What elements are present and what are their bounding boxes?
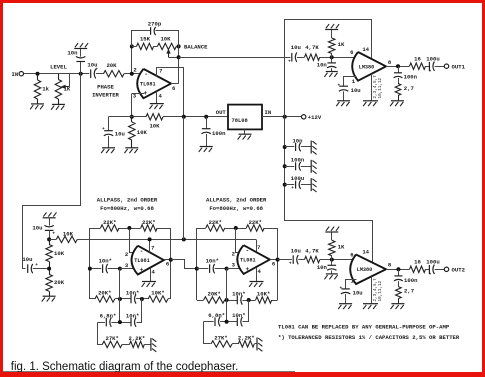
wire 15K to pot — [154, 46, 158, 48]
terminal OUT2 — [444, 267, 465, 274]
resistor 15K feedback — [137, 36, 154, 50]
wire 78L08 to +12V — [262, 116, 302, 118]
wire U1 output — [171, 83, 179, 85]
capacitor 100u amp1 out — [426, 55, 445, 74]
ground under 10n amp2 — [324, 274, 337, 279]
ground under 10n amp1 — [324, 72, 337, 77]
amplifier LM380 #1 — [350, 46, 392, 85]
note tolerances — [278, 334, 460, 341]
capacitor 100u amp2 out — [426, 259, 445, 278]
svg-text:+: + — [340, 286, 343, 291]
svg-text:1K: 1K — [338, 41, 345, 48]
resistor 20K* allpass1 — [95, 290, 115, 303]
svg-text:22K*: 22K* — [249, 219, 262, 226]
node feedback right — [177, 44, 181, 48]
node +12V rail — [283, 115, 287, 119]
node amp1 input — [330, 55, 334, 59]
svg-text:+: + — [52, 231, 55, 236]
wire allpass1 right vertical — [170, 228, 172, 299]
svg-text:10u: 10u — [351, 87, 361, 94]
svg-text:OUT2: OUT2 — [452, 267, 466, 274]
wire 22K mid allpass2 — [225, 228, 247, 230]
potentiometer LEVEL 1K — [50, 63, 71, 104]
svg-text:IN: IN — [265, 109, 272, 116]
svg-text:10n*: 10n* — [126, 312, 139, 319]
label allpass2 title — [206, 196, 267, 203]
svg-text:10K: 10K — [160, 36, 171, 43]
ground U1 pin4 — [149, 104, 163, 109]
wire U2 pin4 stub — [150, 268, 152, 281]
resistor 20K — [104, 62, 125, 77]
resistor 1K amp2 — [329, 232, 345, 259]
wire 22K row right — [157, 228, 171, 230]
capacitor 10n amp2 — [317, 260, 337, 274]
node row1 left allpass2 — [225, 298, 229, 302]
ground above 10u allpass bias (inverted) — [43, 212, 57, 217]
wire allpass2 pin2 drop — [236, 229, 241, 253]
op-amp U2 TL081 allpass1 — [125, 244, 170, 275]
node 100u decoupling — [283, 183, 287, 187]
terminal IN — [11, 71, 23, 78]
svg-text:10K: 10K — [149, 122, 160, 129]
capacitor 10n* allpass2 row1 — [232, 291, 245, 305]
svg-text:1k: 1k — [42, 86, 49, 93]
wire 4.7K to pin6 — [320, 57, 357, 59]
svg-text:20K: 20K — [106, 62, 117, 69]
capacitor 10n* allpass1 row2 — [126, 312, 139, 326]
svg-text:IN: IN — [11, 71, 18, 78]
wire 10u to 4.7K amp2 — [298, 259, 304, 261]
svg-text:10,11,12: 10,11,12 — [378, 280, 383, 301]
resistor 1k to ground — [34, 74, 49, 104]
wire U1 pin3 — [132, 93, 145, 95]
wire allpass1 pin3 drop — [119, 269, 121, 323]
wire 10u to 4.7K — [297, 57, 305, 59]
capacitor 6.8n* allpass1 — [100, 312, 117, 326]
node 8V rail — [182, 115, 186, 119]
svg-text:14: 14 — [362, 248, 369, 255]
ground right 100u — [311, 178, 316, 192]
wire bias row — [109, 116, 147, 118]
wire +12V loop top — [285, 20, 372, 117]
svg-text:16: 16 — [414, 55, 421, 62]
wire allpass2 pin3 — [227, 268, 242, 270]
capacitor 6.8n* allpass2 — [208, 312, 225, 326]
resistor 22K* allpass2 a — [206, 219, 225, 231]
ground under 100n reg — [199, 147, 213, 152]
capacitor 10u allpass bias — [32, 218, 55, 240]
svg-text:100u: 100u — [426, 259, 439, 266]
svg-text:100u: 100u — [291, 175, 304, 182]
node supply rail join — [182, 237, 186, 241]
wire allpass2 left vertical — [196, 228, 198, 300]
capacitor 10u amp2 input — [289, 247, 301, 266]
svg-text:TL081: TL081 — [240, 257, 256, 263]
svg-text:7: 7 — [159, 68, 162, 75]
svg-text:270p: 270p — [148, 21, 162, 28]
ground right 100n — [311, 160, 316, 174]
resistor 22K* allpass2 b — [246, 219, 264, 231]
wire U1 pin7 supply — [157, 68, 184, 117]
capacitor 270p feedback — [132, 21, 179, 47]
svg-text:*) TOLERANCED RESISTORS 1% / C: *) TOLERANCED RESISTORS 1% / CAPACITORS … — [278, 334, 460, 341]
caption text — [11, 361, 239, 373]
svg-text:27K*: 27K* — [214, 335, 227, 342]
svg-text:27K*: 27K* — [105, 335, 118, 342]
svg-text:100n: 100n — [212, 130, 226, 137]
node allpass2 input tap — [195, 267, 199, 271]
capacitor 100n amp2 zobel — [394, 269, 418, 286]
svg-text:2,2K*: 2,2K* — [129, 335, 146, 342]
resistor 2.2K* allpass1 — [129, 335, 146, 348]
svg-text:+12V: +12V — [308, 114, 322, 121]
wire 20K to pin2 — [124, 73, 144, 75]
capacitor 10n* allpass1 input — [92, 257, 120, 273]
wire row1 to output riser — [168, 298, 171, 300]
svg-text:10K*: 10K* — [257, 291, 270, 298]
resistor 4.7K amp2 — [305, 247, 320, 262]
label IN (regulator) — [265, 109, 272, 116]
resistor 22K* allpass1 a — [101, 219, 120, 231]
capacitor 10u bias bypass — [102, 117, 125, 148]
terminal +12V — [302, 114, 322, 121]
svg-text:22K*: 22K* — [103, 219, 116, 226]
wire row2 mid — [111, 322, 130, 324]
node allpass2 output — [276, 258, 280, 262]
wire input to allpass (long route) — [23, 74, 81, 269]
node pin2 U1 — [130, 72, 134, 76]
wire U1 pin4 — [156, 91, 158, 103]
svg-text:100n: 100n — [291, 157, 305, 164]
capacitor 10u coupling — [87, 62, 98, 79]
svg-text:+: + — [429, 69, 432, 74]
label allpass1 spec — [100, 205, 154, 212]
svg-text:10n: 10n — [317, 264, 328, 271]
svg-text:22K*: 22K* — [209, 219, 222, 226]
svg-text:+: + — [289, 262, 292, 267]
wire balance to amp1 (long) — [179, 57, 291, 59]
wire allpass1 pin2 drop — [130, 229, 135, 253]
wire +12V rail down — [285, 117, 373, 263]
wire row3 left riser allpass2 — [204, 322, 211, 344]
wire 4.7K to pin6 amp2 — [320, 259, 357, 261]
capacitor 10u allpass1 input — [22, 256, 38, 273]
capacitor 100n regulator — [202, 117, 227, 147]
node 100n decoupling — [283, 164, 287, 168]
ground under 10K bias — [124, 148, 138, 153]
regulator 78L08 — [228, 105, 262, 130]
svg-text:6,8n*: 6,8n* — [100, 312, 117, 319]
wire row2 right riser allpass2 — [243, 301, 249, 322]
ground 78L08 — [238, 134, 252, 139]
wire 10u to node B — [33, 268, 49, 270]
svg-text:-: - — [245, 247, 249, 254]
caption underline — [3, 371, 295, 372]
wire allpass2 right vertical — [277, 228, 279, 300]
svg-text:10u: 10u — [115, 131, 125, 138]
svg-text:10K: 10K — [137, 129, 148, 136]
node row1 left allpass1 — [118, 297, 122, 301]
svg-text:10n: 10n — [67, 49, 78, 56]
resistor 10K supply filter — [56, 230, 77, 242]
wire row1 b — [136, 298, 148, 300]
svg-text:2,7: 2,7 — [404, 85, 414, 92]
svg-text:-: - — [144, 71, 148, 78]
svg-text:20K: 20K — [54, 279, 65, 286]
op-amp U1 TL081 — [133, 66, 176, 99]
svg-text:1K: 1K — [338, 244, 345, 251]
svg-text:ALLPASS, 2nd ORDER: ALLPASS, 2nd ORDER — [206, 196, 267, 203]
svg-text:+: + — [429, 272, 432, 277]
capacitor 10n input — [67, 49, 85, 74]
resistor 16 amp1 out — [410, 55, 426, 69]
wire feedback left riser — [131, 46, 133, 73]
svg-text:14: 14 — [362, 46, 369, 53]
red frame bottom — [0, 372, 485, 377]
label amp2 pins 2,3,4,5,7 — [373, 278, 378, 302]
svg-text:10n: 10n — [317, 62, 328, 69]
terminal OUT1 — [444, 63, 465, 70]
ground above 10n (inverted) — [74, 43, 88, 48]
svg-text:+: + — [288, 60, 291, 65]
resistor 10K bias lower — [129, 117, 148, 148]
ground under LEVEL pot — [51, 104, 65, 109]
resistor 10K allpass bias vertical — [46, 239, 65, 268]
node allpass1 pin3 — [118, 267, 122, 271]
svg-text:10u: 10u — [291, 247, 301, 254]
svg-text:10,11,12: 10,11,12 — [378, 77, 383, 98]
ground under 10u amp2 bypass — [338, 304, 352, 309]
svg-text:+: + — [338, 83, 341, 88]
svg-text:-: - — [140, 248, 144, 255]
wire amp2 output — [386, 269, 410, 271]
label amp2 pins 10,11,12 — [378, 280, 383, 301]
ground right allpass2 — [257, 337, 262, 351]
red frame left — [0, 0, 3, 377]
svg-text:10n*: 10n* — [206, 257, 219, 264]
svg-text:+: + — [95, 67, 98, 72]
node 10n decoupling — [283, 145, 287, 149]
wire allpass1 left vertical — [89, 228, 91, 299]
wire row3 left riser — [98, 323, 103, 345]
wire row1 a — [115, 298, 131, 300]
capacitor 10n* allpass2 input — [197, 257, 227, 273]
svg-text:6,8n*: 6,8n* — [208, 312, 225, 319]
capacitor 10u amp1 bypass — [338, 83, 361, 100]
wire 22K mid — [119, 228, 141, 230]
node B allpass input — [47, 267, 51, 271]
wire allpass1 row1 — [90, 298, 95, 300]
resistor 20K* allpass2 — [204, 291, 225, 304]
wire U3 pin7 stub — [256, 240, 258, 252]
wire allpass2 out to amp2 — [278, 259, 292, 261]
node input to phase-inverter — [79, 72, 83, 76]
svg-text:78L08: 78L08 — [232, 118, 248, 124]
wire row2 left lead — [97, 322, 105, 324]
ground above 1K amp1 (inverted) — [325, 24, 339, 29]
svg-text:+: + — [140, 267, 144, 274]
svg-text:100n: 100n — [404, 277, 418, 284]
wire 22K row right allpass2 — [264, 228, 277, 230]
svg-text:1K: 1K — [64, 86, 71, 93]
svg-text:4,7K: 4,7K — [305, 44, 319, 51]
node row2 allpass2 — [225, 320, 229, 324]
svg-text:2,2K*: 2,2K* — [238, 335, 255, 342]
op-amp U3 TL081 allpass2 — [232, 244, 276, 275]
resistor 2.7 amp1 zobel — [395, 84, 414, 101]
resistor 22K* allpass1 b — [141, 219, 158, 231]
node row1 right allpass2 — [247, 298, 251, 302]
potentiometer BALANCE 10K — [157, 36, 178, 58]
wire amp2 pin1 — [346, 280, 357, 289]
wire 10K to rail — [163, 116, 184, 118]
wire supply row — [77, 239, 256, 241]
resistor 10K bias upper — [146, 114, 163, 130]
wire U3 pin4 stub — [256, 267, 258, 281]
wire 10u to 20K — [96, 73, 104, 75]
wire 8V rail row — [184, 116, 228, 118]
wire 22K row left — [90, 228, 101, 230]
resistor 27K* allpass2 — [211, 335, 232, 348]
ground right 10n — [311, 141, 316, 155]
wire amp1 output — [386, 66, 410, 68]
svg-text:10K*: 10K* — [151, 290, 164, 297]
svg-text:20K*: 20K* — [207, 291, 220, 298]
node input junction — [36, 72, 40, 76]
ground amp1 pin group — [363, 101, 378, 106]
svg-text:10n: 10n — [292, 137, 303, 144]
capacitor 100n amp1 zobel — [394, 66, 418, 83]
svg-text:100n: 100n — [404, 74, 418, 81]
wire amp2 pin group — [371, 277, 373, 304]
node row2 allpass1 — [118, 320, 122, 324]
svg-text:10n*: 10n* — [232, 291, 245, 298]
svg-text:10u: 10u — [353, 290, 363, 297]
svg-text:+: + — [245, 266, 249, 273]
svg-text:PHASE: PHASE — [97, 84, 114, 91]
wire amp1 pin group — [371, 74, 373, 101]
label amp1 pins 10,11,12 — [378, 77, 383, 98]
node 22K mid allpass1 — [127, 226, 131, 230]
red frame right — [482, 0, 485, 377]
wire input rail — [23, 73, 89, 75]
resistor 27K* allpass1 — [102, 335, 122, 348]
node feedback left — [130, 44, 134, 48]
ground right allpass1 — [151, 338, 156, 352]
wire row3 to ground — [144, 344, 150, 346]
wire row2 left lead allpass2 — [204, 321, 214, 323]
svg-text:10u: 10u — [22, 256, 32, 263]
amplifier LM380 #2 — [350, 248, 392, 284]
svg-text:Fo=800Hz, w=0.68: Fo=800Hz, w=0.68 — [209, 205, 263, 212]
wire supply rail segment — [183, 117, 185, 240]
svg-text:10K: 10K — [54, 250, 65, 257]
node 100n reg — [204, 115, 208, 119]
svg-text:7: 7 — [151, 244, 154, 251]
resistor 2.2K* allpass2 — [238, 335, 255, 348]
resistor 4.7K amp1 — [305, 44, 320, 61]
svg-text:BALANCE: BALANCE — [184, 44, 208, 51]
wire U2 output — [164, 259, 171, 261]
ground amp2 pin group — [363, 304, 378, 309]
ground under 20K allpass — [42, 296, 56, 301]
ground U2 pin4 — [142, 282, 156, 287]
resistor 10K* allpass2 — [256, 291, 272, 304]
node U2 pin7 — [148, 237, 152, 241]
svg-text:ALLPASS, 2nd ORDER: ALLPASS, 2nd ORDER — [97, 196, 158, 203]
label OUT — [216, 109, 227, 116]
label BALANCE — [184, 44, 208, 51]
wire row2 mid allpass2 — [220, 321, 237, 323]
wire row3 mid — [122, 344, 129, 346]
wire row1 a allpass2 — [225, 300, 238, 302]
capacitor 100u decoupling — [285, 175, 311, 191]
resistor 16 amp2 out — [410, 259, 426, 273]
wire U3 output — [270, 259, 278, 261]
node amp2 input — [330, 258, 334, 262]
ground under 1k — [30, 104, 44, 109]
node 22K mid allpass2 — [234, 226, 238, 230]
svg-text:15K: 15K — [140, 36, 151, 43]
svg-text:+: + — [35, 263, 38, 268]
wire 78L08 ground stub — [244, 129, 246, 134]
svg-text:20K*: 20K* — [98, 290, 111, 297]
svg-text:7: 7 — [257, 244, 260, 251]
svg-text:OUT1: OUT1 — [452, 63, 466, 70]
capacitor 10u amp1 input — [288, 44, 301, 65]
svg-text:10u: 10u — [32, 225, 42, 232]
svg-text:OUT: OUT — [216, 109, 227, 116]
red frame top — [0, 0, 485, 3]
resistor 2.7 amp2 zobel — [396, 287, 414, 304]
ground under 10u amp1 bypass — [336, 101, 350, 106]
wire allpass2 row1 — [197, 300, 204, 302]
capacitor 10u amp2 bypass — [340, 286, 363, 303]
wire pot to node — [176, 46, 178, 48]
svg-text:10n*: 10n* — [99, 257, 112, 264]
svg-text:LM380: LM380 — [357, 267, 373, 273]
svg-text:+: + — [102, 127, 105, 132]
node balance wiper — [177, 55, 181, 59]
capacitor 10n amp1 — [317, 57, 337, 71]
capacitor 100n decoupling — [285, 157, 311, 171]
label allpass1 title — [97, 196, 158, 203]
wire node A to 10K — [49, 239, 56, 241]
wire U1 pin3 riser — [131, 94, 133, 117]
wire row1 b allpass2 — [242, 300, 255, 302]
wire allpass1 pin3 — [120, 268, 136, 270]
svg-text:TL081: TL081 — [134, 258, 150, 264]
svg-text:10K: 10K — [63, 230, 74, 237]
wire row2 right riser — [137, 299, 142, 323]
svg-text:10n*: 10n* — [126, 290, 139, 297]
wire U2 pin7 stub — [149, 239, 151, 252]
wire feedback row left — [132, 46, 137, 48]
ground under 10u bias — [101, 148, 115, 153]
wire allpass1 out to allpass2 — [171, 260, 197, 269]
resistor 20K allpass to ground — [46, 269, 65, 296]
ground above 1K amp2 (inverted) — [325, 227, 339, 232]
node A bias allpass — [47, 237, 51, 241]
wire 22K row left allpass2 — [197, 228, 206, 230]
wire allpass2 pin3 drop — [226, 269, 228, 322]
node amp1 output — [396, 64, 400, 68]
wire balance node riser — [178, 46, 180, 83]
svg-text:TL081 CAN BE REPLACED BY ANY G: TL081 CAN BE REPLACED BY ANY GENERAL-PUR… — [278, 324, 450, 331]
wire row3 mid allpass2 — [232, 343, 238, 345]
resistor 10K* allpass1 — [148, 290, 168, 303]
capacitor 10n* allpass1 row1 — [126, 290, 139, 304]
